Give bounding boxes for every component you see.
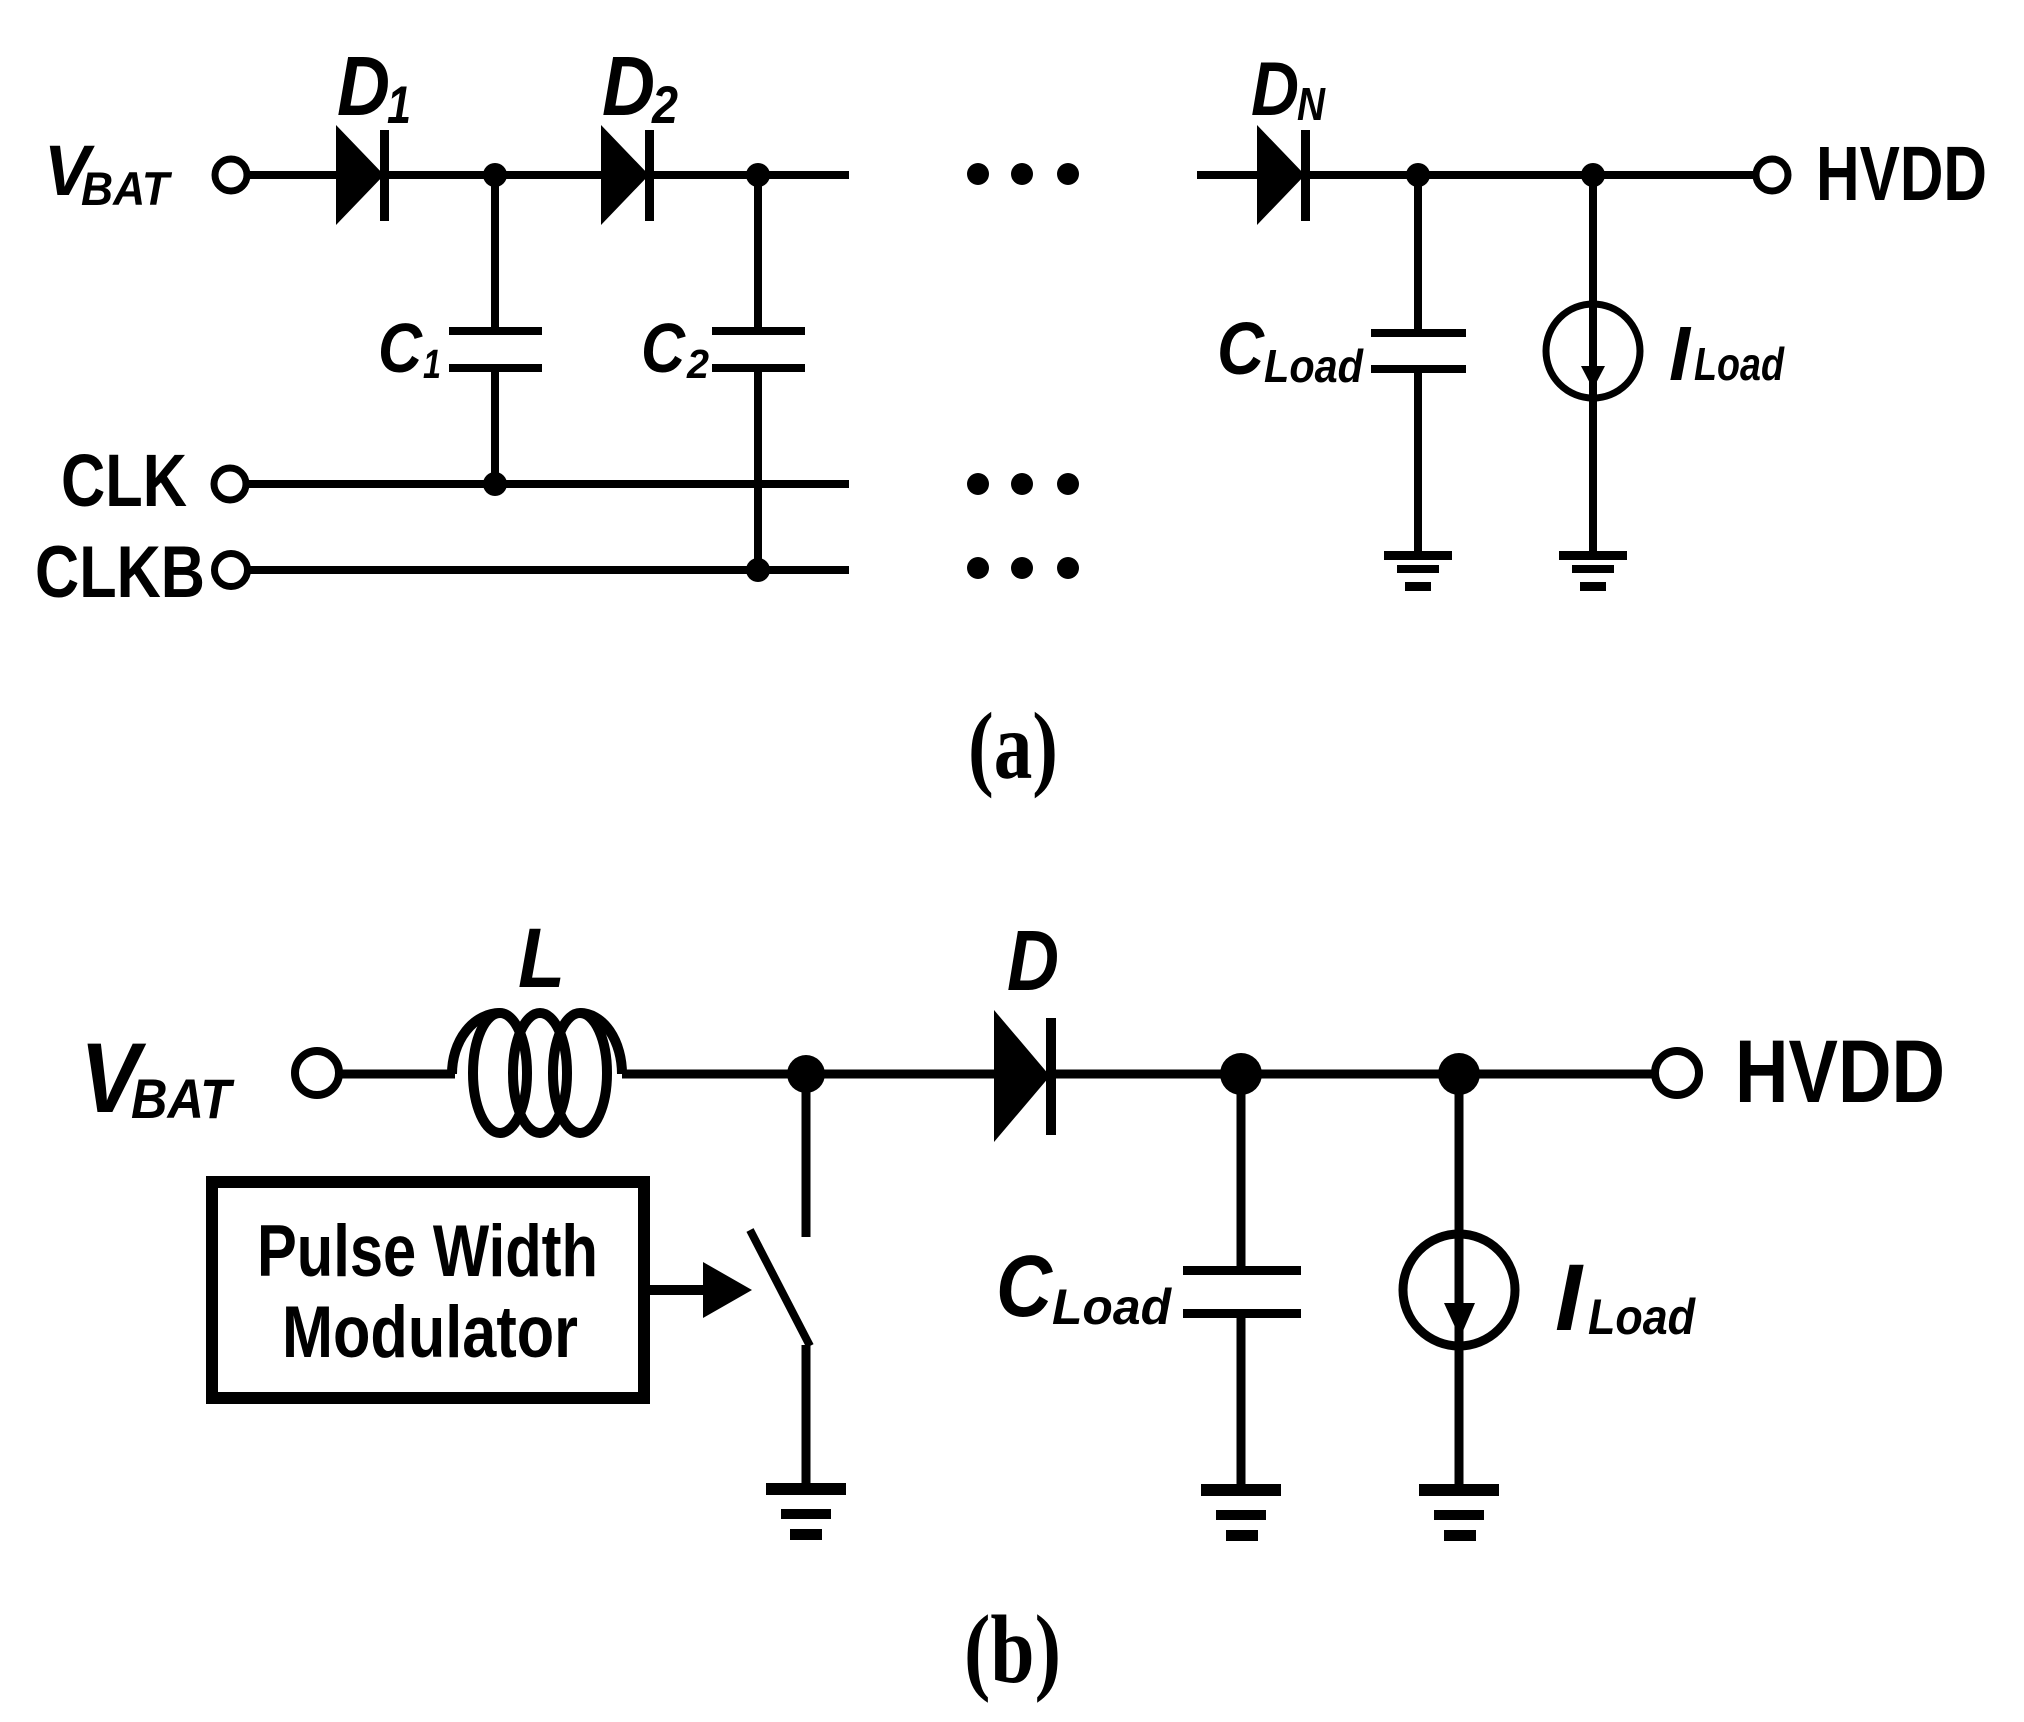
- svg-text:Load: Load: [1052, 1279, 1172, 1335]
- svg-text:Load: Load: [1694, 338, 1785, 390]
- svg-text:(a): (a): [968, 693, 1058, 799]
- svg-text:N: N: [1297, 78, 1326, 130]
- svg-text:Load: Load: [1264, 340, 1364, 392]
- svg-text:Modulator: Modulator: [282, 1292, 578, 1373]
- svg-text:D: D: [1007, 914, 1059, 1009]
- svg-text:D: D: [337, 39, 390, 133]
- svg-text:2: 2: [686, 341, 709, 387]
- svg-text:D: D: [602, 39, 655, 133]
- svg-text:BAT: BAT: [131, 1067, 235, 1130]
- svg-text:CLKB: CLKB: [35, 532, 205, 613]
- svg-text:C: C: [378, 309, 423, 387]
- svg-text:2: 2: [651, 76, 678, 135]
- svg-text:C: C: [1217, 307, 1265, 390]
- svg-text:1: 1: [387, 76, 411, 135]
- svg-text:HVDD: HVDD: [1735, 1021, 1945, 1121]
- svg-text:L: L: [518, 911, 565, 1005]
- svg-text:BAT: BAT: [81, 162, 173, 215]
- svg-text:(b): (b): [964, 1596, 1061, 1703]
- svg-text:HVDD: HVDD: [1816, 131, 1987, 217]
- svg-text:1: 1: [423, 341, 441, 387]
- svg-text:C: C: [996, 1238, 1053, 1335]
- svg-text:I: I: [1555, 1245, 1585, 1351]
- svg-text:Pulse Width: Pulse Width: [257, 1211, 598, 1292]
- svg-text:I: I: [1669, 311, 1692, 397]
- svg-text:C: C: [641, 309, 686, 387]
- svg-text:D: D: [1251, 47, 1299, 132]
- svg-text:Load: Load: [1588, 1289, 1696, 1345]
- svg-text:CLK: CLK: [61, 439, 187, 522]
